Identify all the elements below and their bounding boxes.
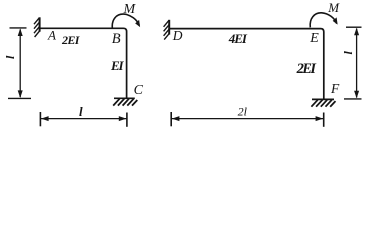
svg-text:2EI: 2EI [61, 33, 81, 47]
svg-text:E: E [309, 31, 319, 46]
svg-text:A: A [47, 28, 56, 43]
svg-text:D: D [172, 28, 183, 43]
svg-text:4EI: 4EI [228, 31, 248, 46]
svg-text:C: C [134, 83, 144, 98]
svg-text:F: F [330, 81, 340, 96]
svg-text:EI: EI [110, 58, 124, 73]
svg-text:M: M [327, 0, 340, 15]
svg-text:2EI: 2EI [296, 61, 318, 77]
svg-text:B: B [112, 31, 121, 47]
svg-text:l: l [79, 104, 83, 119]
svg-text:M: M [123, 2, 137, 17]
svg-text:l: l [3, 55, 17, 59]
svg-text:l: l [341, 51, 355, 55]
svg-text:2l: 2l [238, 105, 248, 119]
